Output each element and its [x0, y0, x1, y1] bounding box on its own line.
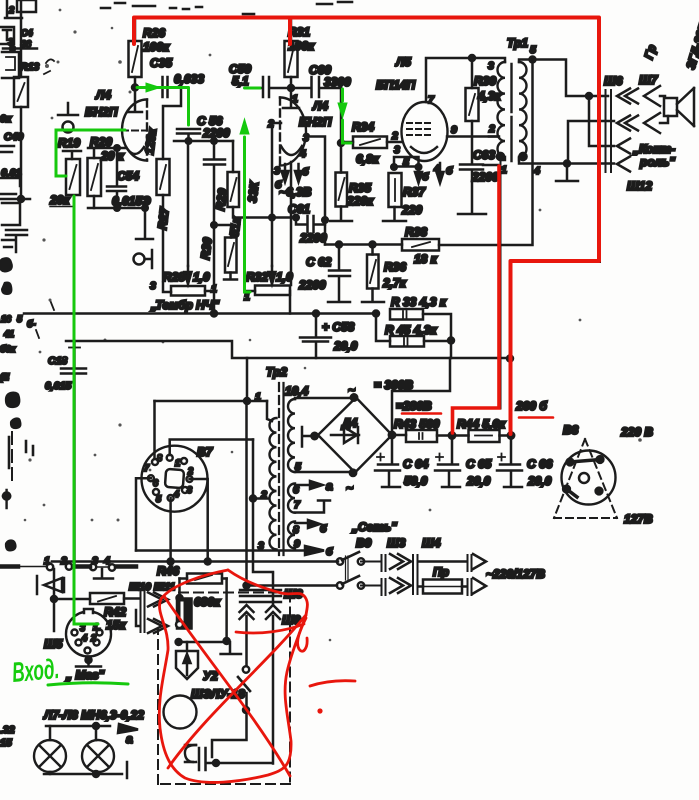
svg-text:220 В: 220 В [620, 425, 653, 439]
svg-text:1: 1 [211, 283, 217, 295]
lamps bottom wire [44, 762, 127, 778]
svg-text:3: 3 [394, 144, 400, 156]
svg-text:У2: У2 [203, 669, 218, 683]
svg-text:8: 8 [157, 453, 162, 463]
svg-text:R36: R36 [384, 260, 406, 274]
svg-text:С 62: С 62 [306, 255, 332, 269]
speaker Gr 3GD-38B [664, 98, 677, 116]
cathode node wire [88, 147, 126, 150]
Tr1 secondary bottom rail [519, 158, 614, 164]
svg-text:2200: 2200 [471, 170, 499, 184]
svg-text:б: б [446, 165, 453, 177]
svg-text:б0к: б0к [0, 344, 16, 354]
wire node mid [18, 196, 24, 202]
svg-text:б: б [326, 546, 333, 558]
svg-text:Л5: Л5 [395, 55, 411, 69]
svg-text:5: 5 [403, 157, 409, 169]
svg-text:Ш12: Ш12 [627, 179, 652, 193]
red stroke right [310, 681, 355, 686]
svg-text:0,015: 0,015 [45, 380, 71, 392]
svg-text:18 к: 18 к [414, 252, 438, 266]
svg-text:100к: 100к [143, 40, 170, 54]
transformer T box partial [0, 27, 14, 44]
svg-text:роль": роль" [639, 155, 675, 169]
svg-text:С63: С63 [473, 148, 495, 162]
svg-text:С 66: С 66 [527, 457, 553, 471]
switch inside unit [243, 666, 249, 672]
green trace R19 down to Sh5 [74, 196, 98, 624]
svg-text:Ш7: Ш7 [639, 73, 659, 87]
svg-text:б: б [320, 523, 327, 535]
svg-text:С54: С54 [117, 169, 139, 183]
cathode L4b [281, 146, 302, 155]
grid dashes L4a [122, 130, 146, 132]
svg-text:2: 2 [488, 123, 495, 135]
svg-text:1: 1 [175, 458, 180, 468]
Tr2 core [278, 383, 280, 555]
connector Sh10 Sh11 bars [141, 592, 145, 632]
diode symbol D4 [331, 434, 359, 437]
ink blob low [5, 539, 17, 551]
svg-text:R26: R26 [143, 26, 165, 40]
svg-text:Л4: Л4 [312, 99, 328, 113]
svg-text:R34: R34 [352, 120, 374, 134]
svg-text:41: 41 [3, 329, 14, 339]
arrow b lower [305, 546, 324, 555]
wire R45 to 300V rail [450, 341, 453, 359]
svg-text:3: 3 [274, 165, 280, 177]
capacitor unit bottom [185, 745, 196, 762]
wire rail to bridge plus [392, 358, 450, 434]
svg-text:3: 3 [303, 132, 309, 144]
resistor R35 [340, 143, 343, 220]
grid bar L4b pin1 [283, 88, 299, 108]
ground pin7 [295, 501, 330, 513]
lamp L7 [49, 726, 52, 774]
box partial y205 [2, 203, 20, 225]
svg-text:R39: R39 [474, 74, 496, 88]
wire pin8 riser down [253, 440, 273, 573]
wire V7 pin2 down to bus1 [190, 479, 208, 562]
bus Y2 300V rail [66, 341, 510, 358]
wire V7 pin8 riser [170, 440, 253, 456]
wire top-left corner stub [5, 0, 22, 48]
svg-text:1,0: 1,0 [276, 270, 293, 284]
svg-text:б-: б- [27, 319, 36, 329]
wire Sh8 down [212, 616, 247, 757]
red trace R31 stub [288, 18, 292, 45]
node wire under C56 [174, 140, 233, 143]
resistor R37 [389, 173, 402, 207]
red underline 280V [402, 412, 441, 415]
top edge dashes [101, 2, 352, 14]
wire C35 to R27 [163, 88, 181, 160]
connector Sh8 Sh9 riser bars [240, 590, 281, 602]
svg-text:Тр1: Тр1 [507, 36, 528, 50]
svg-text:2: 2 [8, 5, 14, 15]
wire V7 pin7 from B+ [153, 401, 156, 459]
svg-text:2: 2 [90, 633, 96, 643]
svg-text:5,1: 5,1 [232, 74, 249, 88]
wire R27 to pot R28 [163, 195, 171, 292]
svg-text:R30: R30 [198, 236, 215, 260]
plug arrow left [44, 578, 62, 592]
svg-text:.32: .32 [0, 724, 15, 736]
svg-text:4: 4 [81, 633, 87, 643]
wire V7 pin4 down [169, 498, 172, 562]
svg-text:220к: 220к [346, 194, 374, 208]
svg-text:С49: С49 [4, 131, 23, 143]
svg-text:16: 16 [1, 314, 12, 324]
mains plug chevrons [468, 555, 472, 595]
tape head symbol [186, 642, 189, 651]
svg-text:4: 4 [299, 148, 306, 160]
Tr1 core [510, 64, 512, 161]
svg-text:1: 1 [292, 93, 298, 105]
red dot [317, 708, 322, 713]
bottom node wire cathode network [88, 207, 146, 210]
red scribble cross-out outer loop [159, 570, 306, 782]
capacitor plates partial [6, 230, 27, 252]
green trace anode L4a to C56 [137, 88, 189, 126]
svg-text:(Е: (Е [0, 372, 10, 382]
svg-text:220: 220 [401, 203, 422, 217]
torn edge noise marks [9, 437, 33, 468]
mains bus2 [247, 584, 338, 587]
wire Sh9 down [272, 574, 275, 764]
Tr1 primary winding [472, 58, 505, 62]
grid cap shield symbol [58, 103, 78, 115]
wire C60 down to R34 [340, 88, 343, 143]
svg-text:R46: R46 [157, 564, 179, 578]
svg-text:~220/127В: ~220/127В [486, 567, 545, 581]
red scribble X diagonal 2 [168, 616, 305, 768]
node wire under R46 [179, 641, 230, 644]
bus Y1 tone [24, 312, 376, 315]
svg-text:Ш4: Ш4 [422, 536, 441, 550]
svg-text:+ С58: + С58 [322, 320, 355, 334]
heater arrows L4b [285, 164, 299, 176]
connector Sh4 bars [413, 555, 418, 594]
box partial below [2, 52, 19, 78]
lamp L8 [96, 726, 98, 774]
bracket marks [0, 178, 20, 194]
motor circle [164, 696, 197, 729]
anode bar L4a [128, 88, 142, 113]
svg-text:С18: С18 [48, 355, 67, 367]
svg-text:260 б: 260 б [515, 399, 547, 413]
speaker feed wire [533, 60, 609, 97]
svg-text:3: 3 [187, 485, 192, 495]
arrow a [295, 484, 313, 487]
ground R35 [330, 220, 352, 223]
kontrol feed wire [589, 96, 614, 146]
node A anode L4a [132, 85, 138, 91]
svg-text:R42: R42 [104, 605, 126, 619]
B+ top rail black under red [135, 18, 600, 435]
resistor R36 [371, 245, 374, 302]
wire B+ riser to bus2 [245, 401, 248, 586]
svg-text:Л7-Л8 МН6,3-0,22: Л7-Л8 МН6,3-0,22 [43, 708, 144, 722]
scan speckles [24, 9, 642, 642]
svg-text:680к: 680к [194, 595, 221, 609]
speaker return wire [568, 121, 614, 164]
red scribble X diagonal 1 [164, 596, 290, 776]
svg-text:3: 3 [150, 280, 156, 292]
svg-text:5: 5 [530, 44, 536, 56]
svg-text:R35: R35 [349, 181, 371, 195]
svg-text:БП14П: БП14П [376, 78, 415, 92]
connector body Sh10-11 mate [177, 599, 192, 629]
dashed unit box U2 [158, 593, 290, 785]
svg-text:20,0: 20,0 [527, 474, 552, 488]
ground speaker rail [556, 164, 578, 182]
red scribble inner curl near Sh9 [298, 618, 308, 651]
B+ wire to Tr2 tap1 [155, 358, 268, 401]
pins 3-5 strap box [394, 157, 419, 167]
switch V9 pole2 [337, 582, 343, 588]
svg-text:С35: С35 [150, 56, 172, 70]
svg-text:10,4: 10,4 [285, 384, 309, 398]
svg-text:2: 2 [187, 466, 193, 476]
svg-text:9: 9 [451, 124, 457, 136]
resistor R29 [232, 141, 235, 172]
svg-text:2200: 2200 [298, 278, 326, 292]
svg-text:4: 4 [173, 489, 179, 499]
red trace 280V wire [453, 166, 500, 433]
svg-text:„Тембр НЧ": „Тембр НЧ" [150, 298, 219, 312]
resistor R30 [225, 238, 237, 273]
resistor R39 [469, 55, 475, 61]
svg-text:~6,3В: ~6,3В [279, 185, 312, 199]
svg-text:15: 15 [0, 737, 12, 749]
switch coupling [346, 556, 349, 580]
svg-text:1: 1 [501, 164, 507, 176]
anode rail y244 [325, 243, 402, 246]
svg-text:20 к: 20 к [100, 149, 125, 163]
svg-text:R13: R13 [20, 61, 39, 73]
svg-text:„ Маг": „ Маг" [65, 668, 105, 682]
cathode L5 [411, 147, 437, 153]
Tr1 secondary winding [519, 62, 527, 160]
resistor R26 [134, 18, 137, 87]
svg-text:3: 3 [488, 60, 494, 72]
red trace B+ rail main [134, 18, 599, 435]
svg-text:Ш3: Ш3 [387, 536, 406, 550]
arrow b upper [295, 522, 310, 525]
svg-text:4: 4 [533, 165, 540, 177]
svg-text:~: ~ [346, 481, 353, 495]
svg-text:20,0: 20,0 [466, 474, 491, 488]
svg-text:б: б [422, 171, 429, 183]
green trace C60 down to R34 [343, 89, 352, 143]
svg-text:20к: 20к [49, 193, 70, 207]
wire tap3 heater line [136, 549, 305, 552]
svg-text:2: 2 [391, 130, 398, 142]
red scribble cross stroke [236, 624, 304, 633]
wire V7 pin6 to tap3 line [136, 478, 151, 550]
svg-text:127В: 127В [624, 512, 653, 526]
svg-text:~: ~ [348, 383, 355, 397]
svg-text:0,033: 0,033 [174, 72, 204, 86]
svg-text:В8: В8 [563, 423, 579, 437]
shield circle node second channel [134, 254, 145, 265]
connector Sh12 kontrol [606, 140, 612, 172]
svg-text:6,8к: 6,8к [356, 152, 380, 166]
svg-text:б: б [302, 166, 309, 178]
green trace grid L4a input [56, 130, 125, 176]
chevrons Sh9 up [266, 605, 280, 619]
svg-text:R28: R28 [163, 270, 185, 284]
green trace C59 stub [245, 87, 261, 90]
svg-text:С61: С61 [288, 202, 310, 216]
svg-text:1,0: 1,0 [193, 270, 210, 284]
svg-text:= 300В: = 300В [374, 378, 413, 392]
red scribble loop top edge [228, 570, 307, 615]
dashed marks [11, 432, 13, 480]
svg-text:=280В: =280В [396, 399, 432, 413]
svg-text:100к: 100к [288, 39, 315, 53]
svg-text:„Сеть": „Сеть" [351, 520, 397, 534]
svg-text:R37: R37 [403, 185, 426, 199]
svg-text:а: а [326, 479, 333, 493]
svg-text:Пр: Пр [433, 565, 449, 579]
green underline Mag [48, 683, 128, 685]
feedback wire tap5 to R38 [439, 60, 533, 245]
svg-text:„Конт-: „Конт- [632, 142, 675, 156]
svg-text:Ш5: Ш5 [44, 637, 63, 651]
svg-text:R38: R38 [405, 225, 427, 239]
wire R13 down [20, 107, 23, 199]
B+ wire 280V black under red [453, 160, 501, 435]
svg-text:R19: R19 [58, 136, 80, 150]
svg-text:а: а [126, 732, 133, 746]
svg-text:R29: R29 [213, 187, 230, 211]
svg-text:0к: 0к [0, 113, 12, 125]
ground stub [221, 642, 241, 654]
socket ground [76, 657, 101, 667]
svg-text:20,0: 20,0 [333, 339, 358, 353]
svg-text:33К: 33К [245, 179, 262, 203]
red underline 260V [519, 416, 553, 419]
connector Sh11 chevrons [148, 619, 168, 633]
wire switch to R42 [54, 569, 90, 631]
svg-text:В9: В9 [356, 536, 372, 550]
svg-text:2,7к: 2,7к [382, 276, 407, 290]
ground bridge minus [302, 427, 315, 447]
wiper feed R28 [187, 141, 190, 266]
svg-text:Тр2: Тр2 [266, 365, 287, 379]
svg-text:Ш6: Ш6 [604, 74, 623, 88]
svg-text:С 65: С 65 [466, 457, 492, 471]
capacitor C57 [204, 141, 225, 314]
ink blob [1, 282, 12, 296]
svg-text:БН2П: БН2П [85, 105, 118, 119]
heater arrows L5 [419, 163, 441, 176]
svg-text:R32: R32 [246, 270, 268, 284]
mains bus1 [52, 560, 338, 563]
svg-text:С4: С4 [21, 28, 33, 38]
ground cathode network [136, 208, 153, 239]
ink blobs left mid [5, 392, 21, 409]
node R30 junction [211, 222, 217, 228]
connector Sh10 chevrons [148, 593, 168, 607]
wiper feed R32 [271, 218, 274, 267]
svg-text:4: 4 [433, 163, 440, 175]
node box top-left [17, 0, 36, 12]
green trace 33K riser [245, 137, 251, 292]
resistor R31 [290, 18, 293, 88]
svg-text:С 64: С 64 [403, 457, 429, 471]
wire R29 bottom [233, 207, 296, 218]
cathode L4a [126, 147, 144, 154]
svg-text:Л4: Л4 [95, 88, 111, 102]
wire node [3, 47, 37, 50]
chevrons Sh8 up [240, 605, 254, 619]
wire tap2 riser [250, 496, 256, 502]
pilot lamps wire [46, 725, 110, 728]
ink blob [0, 257, 13, 272]
svg-text:Вход.: Вход. [11, 653, 61, 688]
svg-text:R 33 4,3 к: R 33 4,3 к [391, 295, 447, 309]
svg-text:50,0: 50,0 [404, 474, 428, 488]
